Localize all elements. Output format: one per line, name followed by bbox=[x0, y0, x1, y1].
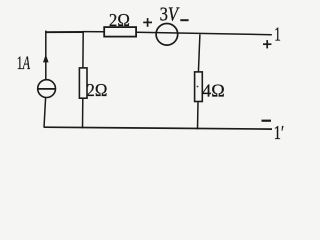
terminal minus mark at port 1' bbox=[262, 120, 272, 122]
svg-text:2Ω: 2Ω bbox=[86, 80, 107, 100]
wire top-left vertical (source branch to top rail) bbox=[45, 31, 47, 80]
resistor R1 2Ω series (horizontal box) bbox=[104, 27, 136, 36]
speck inside load resistor box bbox=[197, 86, 199, 88]
svg-text:4Ω: 4Ω bbox=[202, 81, 225, 101]
svg-text:1′: 1′ bbox=[274, 122, 284, 144]
svg-text:2Ω: 2Ω bbox=[109, 10, 130, 30]
resistor R3 4Ω load (vertical box) bbox=[195, 72, 203, 102]
wire junction drop to load resistor (right branch top) bbox=[198, 34, 200, 72]
wire top rail left segment bbox=[45, 31, 83, 33]
current direction arrowhead on source branch bbox=[43, 54, 49, 62]
wire top rail right segment (through voltage source to terminal 1) bbox=[136, 32, 272, 35]
svg-text:1A: 1A bbox=[17, 54, 31, 74]
resistor R2 2Ω shunt (vertical box) bbox=[79, 68, 87, 98]
svg-text:3V: 3V bbox=[160, 4, 180, 25]
wire shunt resistor to bottom rail bbox=[82, 98, 84, 128]
polarity plus of voltage source bbox=[143, 18, 152, 27]
wire load resistor to bottom rail bbox=[197, 101, 200, 129]
terminal plus mark at port 1 bbox=[263, 40, 271, 48]
wire bottom rail bbox=[44, 127, 272, 129]
current source I1 1A (circle with bar) bbox=[38, 80, 56, 98]
wire junction drop to shunt resistor (left branch top) bbox=[82, 31, 84, 68]
svg-text:1: 1 bbox=[274, 23, 281, 45]
voltage source V1 3V (circle on wire) bbox=[156, 24, 178, 46]
wire top rail junction-to-box segment bbox=[83, 31, 105, 33]
polarity minus of voltage source bbox=[180, 19, 188, 21]
wire left-bottom vertical (current source to bottom rail) bbox=[44, 98, 46, 128]
